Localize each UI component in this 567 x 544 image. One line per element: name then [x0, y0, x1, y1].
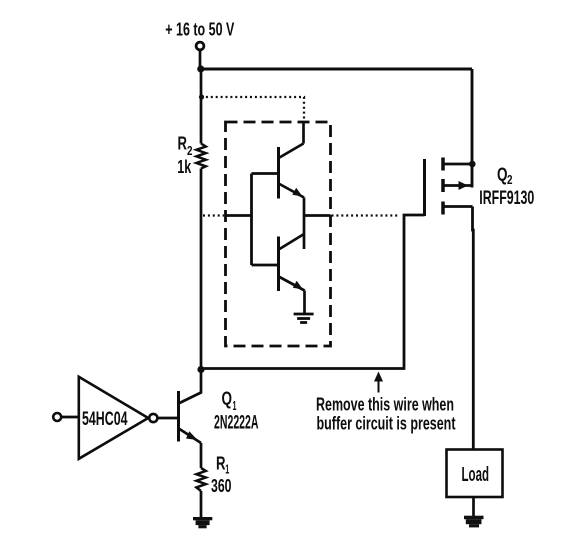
- node dotted tap on rail: [199, 94, 204, 99]
- svg-text:IRFF9130: IRFF9130: [479, 188, 534, 209]
- transistor Q1 NPN: [179, 369, 202, 444]
- arrow pointing at remove wire: [374, 372, 383, 393]
- wire buffer output stub: [304, 214, 331, 217]
- wire top rail: [201, 68, 472, 71]
- load box: [447, 450, 503, 498]
- wire Q2 drain to load: [471, 207, 475, 450]
- input terminal: [53, 413, 61, 421]
- wire terminal to rail: [199, 50, 202, 69]
- wire load to ground: [472, 497, 475, 516]
- node Q1 collector junction: [197, 366, 204, 373]
- svg-text:2: 2: [507, 173, 513, 187]
- svg-text:2N2222A: 2N2222A: [214, 413, 259, 434]
- node Q2 source junction: [469, 161, 476, 168]
- supply terminal: [196, 42, 204, 50]
- svg-text:1k: 1k: [177, 156, 191, 177]
- buffer dashed box: [226, 122, 331, 346]
- wire dotted output of buffer to Q2 gate: [332, 214, 400, 216]
- svg-text:Q: Q: [497, 164, 508, 185]
- ground Q1 emitter: [193, 517, 212, 528]
- wire Q1 emitter to R1: [200, 443, 203, 468]
- transistor buffer top NPN: [279, 144, 305, 199]
- wire input to inverter: [61, 416, 78, 419]
- wire right rail to Q2 source: [471, 69, 474, 188]
- wire dotted from rail to buffer collector: [201, 97, 304, 122]
- ground buffer: [294, 314, 314, 323]
- wire buffer output node vertical: [303, 198, 306, 250]
- svg-text:R: R: [178, 133, 188, 154]
- svg-text:+ 16 to 50 V: + 16 to 50 V: [165, 19, 234, 39]
- wire left rail upper: [200, 69, 203, 144]
- wire buffer emitter to ground: [303, 291, 306, 314]
- wire buffer base bus: [250, 174, 253, 266]
- svg-text:Q: Q: [222, 388, 233, 409]
- wire gate link and remove wire: [201, 215, 425, 369]
- wire buffer collector stub: [302, 122, 305, 144]
- resistor R2: [196, 144, 205, 169]
- node supply junction: [197, 65, 204, 72]
- transistor Q2 P-MOSFET: [425, 158, 473, 217]
- transistor buffer bottom NPN: [279, 234, 305, 291]
- wire dotted input to buffer: [203, 214, 224, 216]
- wire inverter to Q1 base: [158, 417, 177, 420]
- wire base branch top: [252, 172, 279, 175]
- svg-text:Remove this wire when: Remove this wire when: [316, 395, 454, 415]
- wire R1 to ground: [200, 491, 203, 518]
- wire buffer input stub: [226, 214, 252, 217]
- svg-text:R: R: [216, 453, 226, 474]
- svg-text:Load: Load: [462, 464, 490, 486]
- svg-text:54HC04: 54HC04: [82, 408, 128, 430]
- svg-text:buffer circuit is present: buffer circuit is present: [317, 414, 456, 434]
- inverter output bubble: [149, 414, 157, 422]
- wire left rail lower: [200, 169, 203, 369]
- ground load: [464, 516, 484, 528]
- wire base branch bottom: [252, 264, 279, 267]
- inverter U1 54HC04: [79, 377, 148, 459]
- svg-text:360: 360: [211, 475, 232, 496]
- resistor R1: [196, 468, 205, 491]
- svg-text:1: 1: [233, 399, 237, 413]
